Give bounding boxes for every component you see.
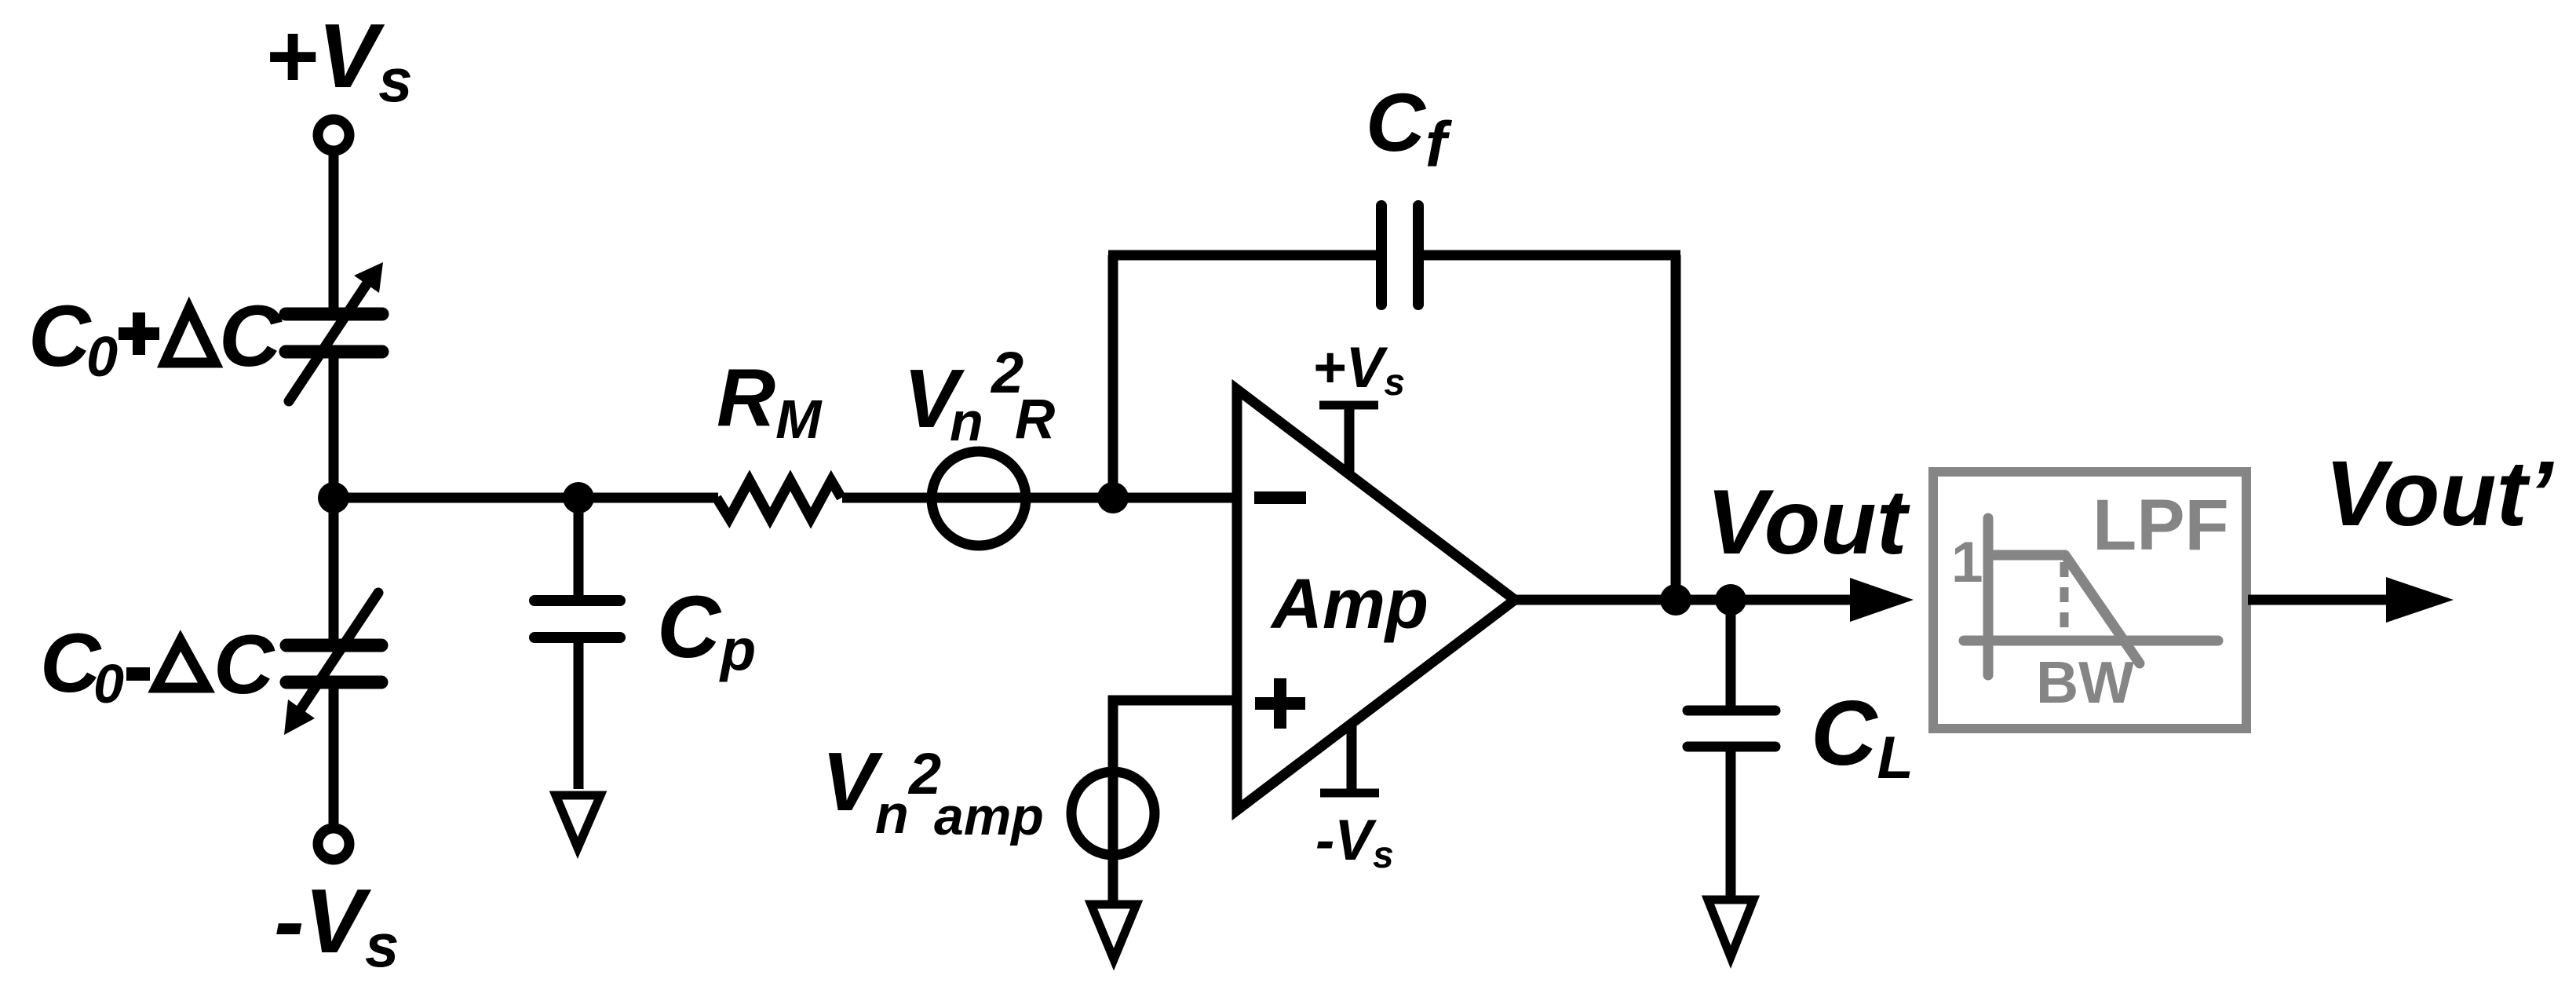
svg-text:C: C bbox=[213, 617, 275, 711]
wire bbox=[329, 151, 339, 308]
wire node A to Cp bbox=[334, 493, 578, 503]
wire output bbox=[1515, 595, 1735, 605]
node A junction bbox=[318, 482, 349, 513]
wire bbox=[842, 493, 1113, 503]
wire bbox=[1726, 747, 1736, 896]
svg-text:BW: BW bbox=[2036, 649, 2134, 715]
op-amp minus pin bbox=[1254, 491, 1306, 504]
wire feedback top right bbox=[1423, 250, 1680, 261]
capacitor CL bbox=[1688, 711, 1775, 747]
supply +Vs bar bbox=[1319, 401, 1378, 410]
LPF box bbox=[1933, 472, 2246, 729]
svg-text:0: 0 bbox=[93, 653, 124, 714]
noise source Vn2R bbox=[932, 451, 1026, 546]
wire bbox=[329, 689, 339, 824]
wire +Vs supply to op-amp bbox=[1345, 405, 1355, 474]
svg-text:0: 0 bbox=[86, 326, 118, 389]
label C0-dC bbox=[40, 616, 275, 714]
wire -Vs supply to op-amp bbox=[1347, 724, 1357, 793]
noise source Vn2amp bbox=[1071, 772, 1155, 855]
wire to op-amp minus bbox=[1113, 493, 1237, 503]
wire feedback left vertical bbox=[1108, 255, 1118, 498]
ground (Cp) bbox=[556, 795, 600, 848]
svg-text:C: C bbox=[219, 288, 283, 385]
node inverting input junction bbox=[1097, 482, 1129, 513]
node feedback junction bbox=[1660, 584, 1691, 616]
wire through noise source bbox=[1108, 768, 1118, 901]
supply -Vs bar bbox=[1320, 789, 1379, 798]
wire Vout to LPF with arrowhead bbox=[1731, 595, 1856, 605]
wire feedback top left bbox=[1108, 250, 1377, 261]
svg-text:amp: amp bbox=[934, 787, 1044, 846]
capacitor Cp bbox=[535, 601, 620, 637]
wire bbox=[574, 498, 584, 596]
LPF dashed BW line bbox=[2060, 562, 2069, 641]
svg-text:R: R bbox=[1015, 389, 1055, 451]
wire Cp to RM bbox=[578, 493, 718, 503]
wire bbox=[574, 637, 584, 789]
svg-text:Vout: Vout bbox=[1706, 470, 1910, 573]
LPF y-axis bbox=[1983, 518, 1994, 675]
label C0+dC bbox=[28, 288, 283, 389]
op-amp plus pin bbox=[1255, 678, 1305, 729]
capacitor Cf bbox=[1381, 206, 1418, 305]
wire LPF to Vout' with arrowhead bbox=[2248, 595, 2390, 605]
terminal -Vs bbox=[318, 828, 349, 860]
node CL junction bbox=[1715, 584, 1746, 616]
svg-text:1: 1 bbox=[1951, 531, 1983, 594]
label Vn2amp bbox=[822, 736, 1044, 846]
wire plus input bbox=[1113, 700, 1237, 768]
svg-text:Vout’: Vout’ bbox=[2325, 442, 2555, 546]
wire CL bbox=[1726, 600, 1736, 706]
ground (CL) bbox=[1708, 900, 1753, 957]
svg-text:LPF: LPF bbox=[2093, 485, 2229, 565]
ground (Vn2amp) bbox=[1091, 904, 1137, 959]
svg-text:n: n bbox=[950, 391, 983, 452]
LPF x-axis bbox=[1964, 636, 2218, 646]
capacitor C0-dC bbox=[284, 593, 381, 735]
wire bbox=[329, 498, 339, 639]
capacitor C0+dC bbox=[286, 262, 383, 401]
svg-text:C: C bbox=[28, 288, 92, 385]
terminal +Vs bbox=[318, 119, 349, 151]
op-amp Amp (U1) triangle bbox=[1237, 389, 1515, 810]
resistor RM bbox=[717, 480, 841, 518]
svg-text:n: n bbox=[875, 784, 909, 845]
node Cp junction bbox=[563, 482, 594, 513]
LPF response curve bbox=[1993, 555, 2140, 663]
wire bbox=[329, 358, 339, 498]
svg-text:Amp: Amp bbox=[1270, 565, 1428, 644]
label Vn2R bbox=[903, 340, 1055, 452]
wire feedback right vertical bbox=[1671, 255, 1681, 600]
